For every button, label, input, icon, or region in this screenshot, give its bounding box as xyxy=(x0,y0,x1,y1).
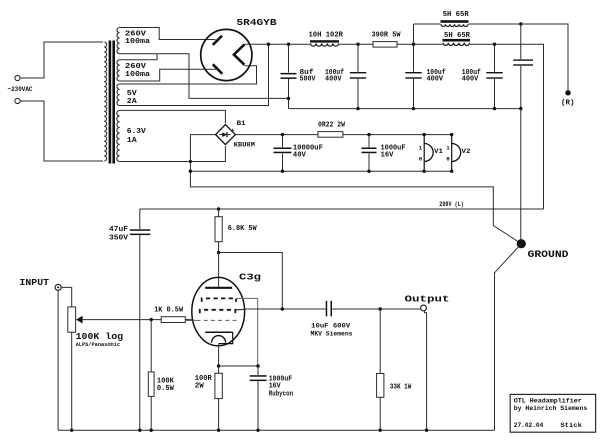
capacitor C7 1000uF stem xyxy=(368,135,370,148)
heater V2 symbol xyxy=(451,135,453,144)
svg-text:0.5W: 0.5W xyxy=(157,385,174,393)
node anode junction xyxy=(217,251,220,254)
transformer secondary 260V winding 2 coil xyxy=(117,60,120,81)
capacitor C6 10000uF stem xyxy=(282,135,284,148)
triode C3g grid3 xyxy=(202,298,236,301)
wire pot bottom to ground xyxy=(71,332,73,430)
svg-text:100K log: 100K log xyxy=(76,332,124,342)
node gnd 33K xyxy=(379,429,382,432)
inductor L3 5H 65R left channel xyxy=(443,39,471,42)
node gnd bus cap4 xyxy=(519,107,522,110)
wire heater minus bus xyxy=(190,170,453,172)
node gnd bus cap2 xyxy=(356,107,359,110)
wire bottom ground bus xyxy=(58,429,494,431)
capacitor C2 100uf stem xyxy=(357,44,359,72)
triode C3g cathode xyxy=(205,331,231,333)
triode C3g envelope xyxy=(192,277,245,345)
wire grid3 to cathode node xyxy=(257,298,259,366)
node gnd rubycon xyxy=(256,429,259,432)
svg-text:2A: 2A xyxy=(127,98,138,106)
node heater cap1 bottom xyxy=(281,170,284,173)
transformer core xyxy=(109,41,112,164)
svg-text:ALPS/Panasonic: ALPS/Panasonic xyxy=(76,342,121,348)
svg-text:~230VAC: ~230VAC xyxy=(8,86,33,94)
node 8uf junction xyxy=(287,43,290,46)
wire cathode to bypass cap xyxy=(219,365,258,367)
node V1 pin1 xyxy=(423,133,426,136)
resistor R 6.8K 5W xyxy=(218,209,220,217)
svg-text:299V (L): 299V (L) xyxy=(439,201,464,208)
svg-text:500V: 500V xyxy=(300,76,316,84)
svg-text:10H 102R: 10H 102R xyxy=(309,32,344,40)
node choke junction xyxy=(412,43,415,46)
svg-text:V2: V2 xyxy=(462,148,471,155)
wire output terminal to ground xyxy=(425,311,427,431)
rectifier filament chevron xyxy=(234,44,245,64)
node gnd bus cap3 xyxy=(412,107,415,110)
svg-text:33K 1W: 33K 1W xyxy=(390,383,412,391)
svg-text:100ma: 100ma xyxy=(125,38,151,46)
svg-text:GROUND: GROUND xyxy=(528,249,569,260)
node heater cap2 bottom xyxy=(367,170,370,173)
wire 299V left channel B+ xyxy=(140,208,544,210)
svg-text:1: 1 xyxy=(446,144,450,151)
svg-text:B1: B1 xyxy=(237,120,246,127)
wire B+ rail segment 2 xyxy=(339,43,373,45)
wire winding2 top to center tap xyxy=(120,54,157,60)
node cathode junction xyxy=(217,364,220,367)
svg-text:2W: 2W xyxy=(195,383,204,391)
svg-text:100ma: 100ma xyxy=(125,71,151,79)
wire winding1 top to rectifier plate 1 xyxy=(120,28,216,40)
wire anode lead xyxy=(218,253,220,288)
wire output line right xyxy=(332,308,421,310)
wire B+ rail segment 3 xyxy=(397,43,443,45)
rectifier tube U1 envelope xyxy=(201,29,252,80)
capacitor C8 47uF plates xyxy=(130,229,151,231)
node cap4 top junction xyxy=(519,22,522,25)
wire 6.3V top to bridge AC1 xyxy=(120,110,226,123)
svg-text:+: + xyxy=(231,128,235,135)
node heater cap2 top xyxy=(367,133,370,136)
node 8uf center-tap junction xyxy=(287,97,290,100)
heater V1 symbol xyxy=(423,135,425,144)
svg-text:1A: 1A xyxy=(127,137,138,145)
resistor R 0R22 2W xyxy=(318,132,343,138)
wire wiper to grid line xyxy=(82,319,161,321)
svg-text:400V: 400V xyxy=(325,76,342,84)
node 299V to 6.8K junction xyxy=(217,207,220,210)
svg-text:0R22 2W: 0R22 2W xyxy=(318,122,345,130)
node bridge AC2 crossing blob xyxy=(189,160,192,163)
node star ground xyxy=(517,239,526,248)
svg-text:1K 0.5W: 1K 0.5W xyxy=(154,306,183,314)
node heater cap1 top xyxy=(281,133,284,136)
node output terminal xyxy=(421,305,427,311)
node gnd bus cap5 xyxy=(493,107,496,110)
svg-text:10uF 600V: 10uF 600V xyxy=(311,322,351,330)
wire HV ground bus xyxy=(289,108,521,110)
svg-text:400V: 400V xyxy=(427,76,444,84)
svg-text:OTL Headamplifier: OTL Headamplifier xyxy=(514,397,582,404)
wire 1K to grid xyxy=(185,319,193,321)
svg-text:by Heinrich Siemens: by Heinrich Siemens xyxy=(514,405,588,412)
transformer secondary 5V winding coil xyxy=(117,84,120,106)
rectifier B1 diode symbol xyxy=(220,134,231,136)
wire filament to B+ rail xyxy=(244,43,268,45)
svg-text:(R): (R) xyxy=(561,100,575,108)
wire 5V top to filament bottom xyxy=(120,66,257,84)
node input terminal xyxy=(55,284,61,290)
resistor R 1K 0.5W xyxy=(161,317,185,323)
svg-text:5H 65R: 5H 65R xyxy=(443,11,469,19)
wire grid2 to output line xyxy=(235,308,244,310)
wire 6.3V bottom to bridge AC2 xyxy=(120,146,226,162)
potentiometer wiper arrow xyxy=(76,316,83,324)
svg-text:40V: 40V xyxy=(293,152,306,160)
svg-text:5R4GYB: 5R4GYB xyxy=(237,17,277,28)
resistor R 100K 0.5W xyxy=(150,320,152,372)
triode C3g grid2 screen xyxy=(200,310,236,313)
svg-text:KBU8M: KBU8M xyxy=(234,141,255,149)
node mains terminal N xyxy=(15,98,20,103)
svg-text:5H 65R: 5H 65R xyxy=(444,32,470,40)
wire mains L to primary xyxy=(20,42,103,78)
svg-text:Output: Output xyxy=(405,294,450,305)
triode C3g grid1 xyxy=(197,319,238,321)
wire input to pot top xyxy=(61,287,71,307)
wire cathode lead xyxy=(218,344,220,366)
wire B+ rail to left channel xyxy=(470,44,544,209)
svg-text:8: 8 xyxy=(419,156,423,163)
node B+ takeoff junction xyxy=(267,43,270,46)
svg-text:400V: 400V xyxy=(462,76,479,84)
svg-text:47uF: 47uF xyxy=(109,226,129,234)
capacitor C3 100uf stem xyxy=(413,44,415,72)
node cap2 junction xyxy=(356,43,359,46)
svg-text:6.3V: 6.3V xyxy=(127,128,147,136)
wire bridge minus to heater return xyxy=(190,135,521,244)
node gnd 100K xyxy=(150,429,153,432)
node gnd 47uF xyxy=(138,429,141,432)
wire ground to output bus xyxy=(495,244,522,431)
svg-text:INPUT: INPUT xyxy=(20,277,50,288)
capacitor C6 10000uF plates xyxy=(274,148,292,150)
rectifier B1 bridge outline xyxy=(216,125,236,145)
capacitor C7 1000uF plates xyxy=(362,148,377,150)
svg-text:1: 1 xyxy=(419,144,423,151)
wire B+ rail segment 1 xyxy=(269,43,311,45)
capacitor C2 100uf plates xyxy=(350,72,366,73)
wire 5V bottom to filament top node xyxy=(120,44,269,105)
capacitor C5 100uf plates xyxy=(486,72,502,73)
capacitor C4 100uf stem xyxy=(520,24,522,59)
rectifier plate 1 xyxy=(213,36,222,45)
inductor L1 10H 102R xyxy=(310,40,339,42)
capacitor C 8uf plates xyxy=(281,73,297,75)
capacitor C5 100uf stem xyxy=(494,44,496,72)
resistor R 390R 5W xyxy=(373,42,397,48)
capacitor C9 1000uF Rubycon plates xyxy=(250,375,267,377)
resistor R 33K 1W xyxy=(379,309,381,374)
potentiometer R 100K log body xyxy=(68,307,76,332)
node V1 pin8 xyxy=(423,170,426,173)
node grid divider junction xyxy=(150,318,153,321)
node cap5 junction xyxy=(493,43,496,46)
svg-text:27.02.04: 27.02.04 xyxy=(514,422,544,429)
resistor R 100R 2W xyxy=(218,366,220,373)
capacitor C10 10uF MKV plates xyxy=(326,301,328,317)
node gnd output xyxy=(425,429,428,432)
wire winding2 bottom to rectifier plate 2 xyxy=(120,69,216,81)
triode C3g anode plate xyxy=(205,287,232,289)
svg-text:Stick: Stick xyxy=(560,422,582,429)
title block frame xyxy=(510,394,595,432)
transformer secondary 6.3V winding coil xyxy=(117,110,120,161)
svg-text:16V: 16V xyxy=(381,152,394,160)
node mains terminal L xyxy=(15,75,20,80)
node heater minus bus start xyxy=(189,170,192,173)
svg-text:MKV Siemens: MKV Siemens xyxy=(311,330,353,338)
svg-text:V1: V1 xyxy=(434,148,443,155)
wire input sleeve to ground xyxy=(57,291,59,431)
node anode output junction xyxy=(281,307,284,310)
inductor L2 5H 65R right channel xyxy=(441,20,469,23)
svg-text:8: 8 xyxy=(446,156,450,163)
node 33K junction xyxy=(379,307,382,310)
wire mains N to primary xyxy=(20,101,103,161)
wire anode to output coupling xyxy=(219,253,283,310)
svg-text:390R 5W: 390R 5W xyxy=(372,32,401,40)
capacitor C3 100uf plates xyxy=(405,72,421,73)
capacitor C9 1000uF Rubycon stem xyxy=(257,366,259,375)
transformer secondary 260V winding 1 coil xyxy=(117,28,120,54)
wire heater plus line xyxy=(235,134,451,136)
wire winding1 bottom center tap xyxy=(120,54,289,99)
transformer primary winding xyxy=(104,42,106,161)
node R output terminal xyxy=(565,90,570,95)
capacitor C 8uf stem xyxy=(288,44,290,72)
wire output line xyxy=(245,308,326,310)
svg-text:6.8K 5W: 6.8K 5W xyxy=(228,225,257,233)
wire choke R feed xyxy=(414,23,441,25)
wire ground drop to star ground xyxy=(520,109,522,241)
wire riser to choke R xyxy=(413,24,415,44)
wire choke R output to R terminal xyxy=(469,24,569,90)
svg-text:350V: 350V xyxy=(109,234,129,242)
capacitor C4 100uf plates xyxy=(513,59,533,60)
node gnd pot xyxy=(70,429,73,432)
node V2 pin1 xyxy=(450,133,453,136)
node gnd 100R xyxy=(217,429,220,432)
rectifier plate 2 xyxy=(213,64,223,74)
node V2 pin8 xyxy=(450,170,453,173)
node bypass cap top xyxy=(256,364,259,367)
capacitor C8 47uF stem xyxy=(139,209,141,229)
svg-text:Rubycon: Rubycon xyxy=(269,390,294,398)
svg-text:C3g: C3g xyxy=(239,271,261,282)
